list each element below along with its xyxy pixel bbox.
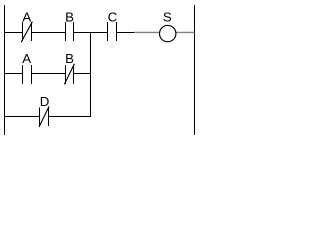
svg-text:B: B	[65, 51, 74, 66]
svg-text:S: S	[163, 9, 172, 24]
svg-text:B: B	[65, 9, 74, 24]
svg-text:D: D	[40, 94, 50, 109]
svg-text:C: C	[108, 9, 118, 24]
svg-text:A: A	[22, 9, 31, 24]
svg-text:A: A	[22, 51, 31, 66]
